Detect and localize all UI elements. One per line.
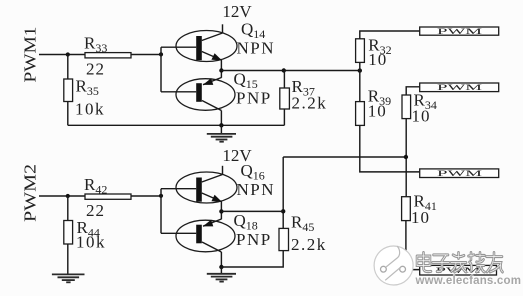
- wire R37 top lead: [283, 71, 285, 89]
- wire Q15 base lead: [161, 91, 196, 93]
- wire R39 bottom lead to PWM3: [360, 125, 420, 171]
- node R34/R41 junction: [404, 155, 408, 159]
- wire 12V stub Q14 collector: [222, 24, 224, 33]
- resistor R32: [356, 39, 365, 63]
- svg-text:PNP: PNP: [236, 230, 272, 249]
- node R32/R39 junction: [358, 68, 362, 72]
- node junction R33/R35: [66, 52, 70, 56]
- watermark logo circle: [374, 246, 413, 285]
- connector PWM third: [420, 168, 499, 178]
- wire R44 top lead: [67, 196, 69, 221]
- node PWM1 input label: [21, 27, 40, 83]
- transistor Q14: [176, 31, 237, 62]
- resistor R41: [402, 197, 411, 221]
- svg-text:10: 10: [368, 101, 387, 120]
- wire R39 top lead: [359, 71, 361, 102]
- wire ground rail top section: [68, 124, 285, 126]
- wire output rail top: [221, 70, 359, 72]
- svg-text:PWM2: PWM2: [21, 164, 40, 222]
- transistor Q18: [176, 219, 235, 252]
- wire riser from PWM2 output node: [282, 157, 284, 228]
- wire PWM2 lead: [39, 195, 85, 197]
- svg-text:2.2k: 2.2k: [291, 235, 327, 254]
- wire emitter junction vertical: [220, 60, 222, 78]
- svg-text:10: 10: [368, 50, 387, 69]
- node junction base column 2: [159, 194, 163, 198]
- wire R32 bottom lead: [359, 62, 361, 70]
- resistor R34: [402, 95, 411, 119]
- wire PWM1 lead: [39, 54, 85, 56]
- node ground junction: [219, 123, 223, 127]
- node R45 tap: [281, 209, 285, 213]
- resistor R35: [64, 79, 73, 102]
- svg-text:10: 10: [411, 208, 430, 227]
- wire Q15 collector to ground rail: [220, 111, 222, 126]
- node PWM2 input label: [21, 164, 40, 222]
- node output junction top: [219, 68, 223, 72]
- wire base column vertical: [160, 47, 162, 92]
- wire R41 bottom lead to PWM4: [406, 221, 420, 270]
- svg-text:10k: 10k: [76, 233, 106, 252]
- resistor R39: [356, 102, 365, 126]
- wire R34 top lead to PWM2 box: [406, 87, 420, 95]
- svg-text:22: 22: [86, 59, 105, 78]
- svg-text:R33: R33: [84, 33, 107, 55]
- ground top section: [207, 125, 236, 141]
- svg-text:NPN: NPN: [237, 39, 276, 58]
- svg-text:12V: 12V: [222, 2, 252, 21]
- resistor R42: [85, 194, 131, 199]
- wire R35 top lead: [67, 55, 69, 80]
- svg-text:PWM: PWM: [437, 82, 483, 92]
- node R37 tap: [282, 68, 286, 72]
- transistor Q15: [176, 78, 235, 111]
- svg-text:10k: 10k: [75, 100, 105, 119]
- wire Q14 base lead: [161, 46, 196, 48]
- wire R42 to bases: [131, 195, 161, 197]
- svg-text:NPN: NPN: [237, 180, 276, 199]
- resistor R44: [64, 221, 73, 245]
- svg-text:PWM: PWM: [437, 26, 483, 36]
- ground bottom middle: [207, 267, 236, 282]
- node junction R42/R44: [66, 194, 70, 198]
- svg-text:PWM1: PWM1: [21, 27, 40, 83]
- wire 12V stub Q16 collector: [222, 166, 224, 175]
- svg-text:R35: R35: [76, 77, 99, 99]
- svg-text:22: 22: [86, 201, 105, 220]
- wire R32 top lead to PWM: [360, 31, 420, 39]
- ground bottom left: [52, 274, 85, 282]
- connector PWM second: [420, 82, 499, 92]
- wire emitter junction vertical 2: [220, 202, 222, 220]
- svg-text:www.elecfans.com: www.elecfans.com: [415, 275, 522, 287]
- svg-text:PWM: PWM: [437, 168, 483, 178]
- wire base column vertical 2: [160, 189, 162, 234]
- wire Q18 base lead: [161, 232, 196, 234]
- resistor R33: [85, 53, 131, 58]
- wire cross rail to R34/R41 node: [283, 156, 406, 158]
- watermark text 电子发烧友: [417, 253, 503, 272]
- node ground junction bottom: [219, 265, 223, 269]
- wire R35 bottom lead: [67, 102, 69, 126]
- node junction base column: [159, 52, 163, 56]
- wire R45 bottom rail: [221, 251, 283, 267]
- connector PWM top: [420, 26, 499, 36]
- svg-text:PNP: PNP: [236, 88, 272, 107]
- wire output rail bottom: [221, 210, 283, 212]
- node output junction bottom: [219, 209, 223, 213]
- svg-text:R45: R45: [291, 213, 314, 235]
- resistor R45: [279, 228, 289, 250]
- wire Q18 collector down: [220, 252, 222, 267]
- wire R34 to R41 vertical: [405, 119, 407, 197]
- resistor R37: [280, 88, 290, 109]
- svg-text:R42: R42: [84, 175, 107, 197]
- wire R44 bottom lead: [67, 244, 69, 274]
- transistor Q16: [176, 172, 237, 203]
- wire R33 to bases: [131, 54, 161, 56]
- connector PWM fourth: [420, 265, 497, 275]
- wire R37 bottom lead: [283, 109, 285, 125]
- wire Q16 base lead: [161, 188, 196, 190]
- svg-text:2.2k: 2.2k: [292, 94, 328, 113]
- svg-text:10: 10: [412, 106, 431, 125]
